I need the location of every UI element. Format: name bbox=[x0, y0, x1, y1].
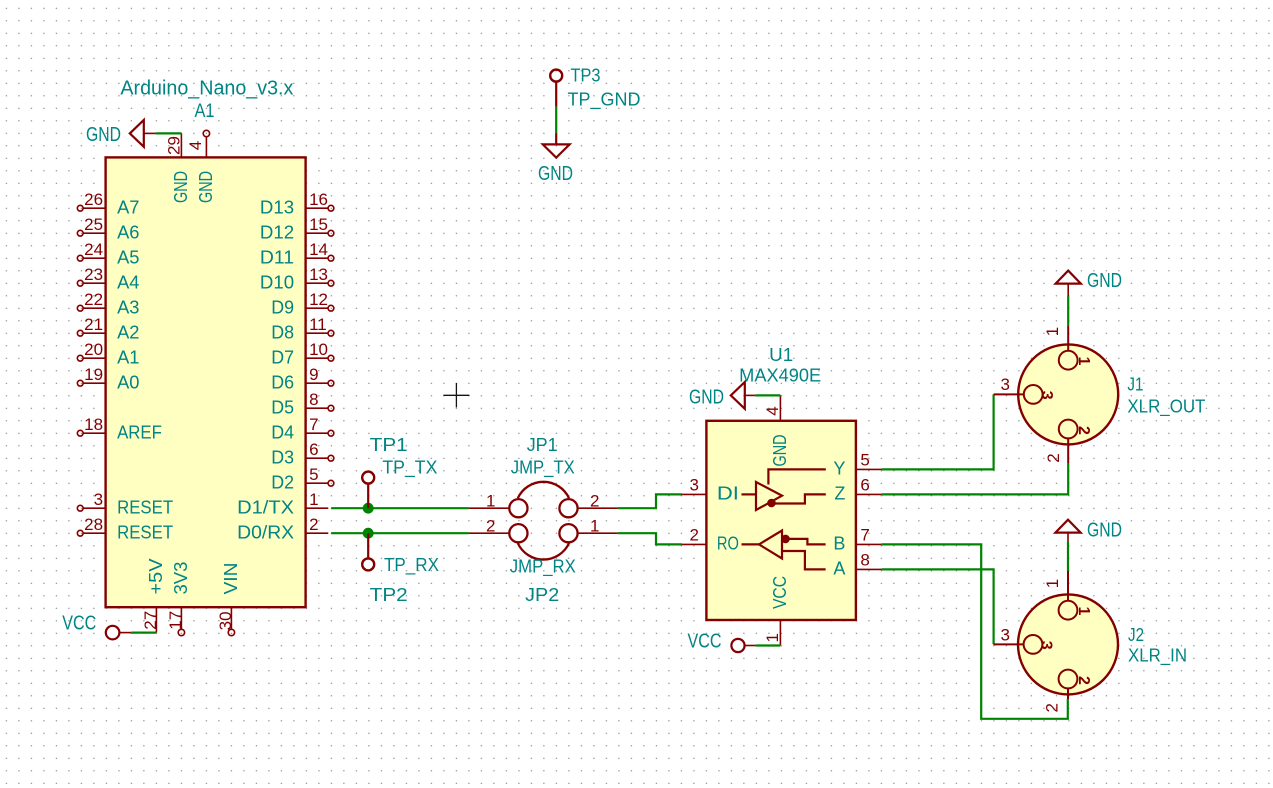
pin 7 (D4) of A1 bbox=[271, 415, 334, 443]
driver triangle (U1 DI to Y/Z) bbox=[756, 482, 782, 510]
svg-text:2: 2 bbox=[486, 516, 495, 535]
wire TP3 to GND bbox=[555, 107, 557, 134]
pin 18 (AREF) of A1 bbox=[77, 415, 162, 443]
svg-text:GND: GND bbox=[538, 163, 573, 185]
svg-text:3: 3 bbox=[690, 476, 699, 495]
jumper JP2 JMP_RX arc bbox=[518, 543, 569, 559]
svg-text:D4: D4 bbox=[271, 422, 294, 442]
pin 2 of J2 bbox=[1043, 670, 1092, 713]
svg-text:B: B bbox=[833, 534, 845, 554]
svg-text:2: 2 bbox=[1044, 453, 1063, 462]
svg-text:D3: D3 bbox=[271, 447, 294, 467]
jumper JP1 JMP_TX arc bbox=[518, 482, 569, 498]
svg-text:TP_RX: TP_RX bbox=[384, 555, 439, 576]
svg-text:2: 2 bbox=[1075, 426, 1092, 435]
svg-text:TP3: TP3 bbox=[571, 66, 601, 86]
jumper JP2 pad 1 bbox=[559, 516, 617, 542]
svg-text:+5V: +5V bbox=[146, 559, 166, 595]
svg-text:TP_TX: TP_TX bbox=[382, 458, 437, 479]
svg-text:1: 1 bbox=[1043, 579, 1062, 588]
svg-text:A: A bbox=[833, 559, 845, 579]
svg-text:7: 7 bbox=[309, 415, 318, 434]
svg-text:D6: D6 bbox=[271, 372, 294, 392]
svg-text:D5: D5 bbox=[271, 397, 294, 417]
svg-text:D0/RX: D0/RX bbox=[237, 522, 294, 542]
svg-text:TP2: TP2 bbox=[370, 585, 408, 605]
svg-text:16: 16 bbox=[309, 190, 328, 209]
pin 11 (D8) of A1 bbox=[271, 315, 334, 343]
svg-text:GND: GND bbox=[171, 171, 191, 203]
svg-text:A4: A4 bbox=[117, 272, 139, 292]
svg-text:27: 27 bbox=[141, 611, 160, 630]
svg-text:MAX490E: MAX490E bbox=[739, 366, 821, 386]
svg-text:A0: A0 bbox=[117, 372, 139, 392]
pin 8 (D5) of A1 bbox=[271, 390, 334, 418]
internal wire Z output bbox=[775, 494, 826, 503]
svg-text:30: 30 bbox=[216, 611, 235, 630]
pin 16 (D13) of A1 bbox=[260, 190, 334, 218]
pin 2 (RO) of U1 bbox=[682, 526, 739, 554]
testpoint TP3 TP_GND bbox=[550, 70, 562, 107]
svg-text:J2: J2 bbox=[1128, 625, 1144, 645]
pin 20 (A1) of A1 bbox=[77, 340, 139, 368]
svg-text:3: 3 bbox=[1001, 625, 1010, 644]
svg-text:XLR_OUT: XLR_OUT bbox=[1127, 397, 1205, 418]
pin 23 (A4) of A1 bbox=[77, 265, 139, 293]
svg-text:GND: GND bbox=[1087, 520, 1122, 542]
svg-text:GND: GND bbox=[86, 124, 121, 146]
svg-text:D13: D13 bbox=[260, 197, 294, 217]
svg-text:GND: GND bbox=[196, 171, 216, 203]
pin 1 of J1 bbox=[1043, 326, 1092, 370]
pin 14 (D11) of A1 bbox=[260, 240, 334, 268]
junction on D0/RX at TP2 bbox=[363, 528, 374, 539]
svg-text:17: 17 bbox=[166, 611, 185, 630]
pin 28 (RESET) of A1 bbox=[77, 515, 173, 543]
internal wire Y output bbox=[768, 469, 825, 484]
jumper JP1 pad 2 bbox=[559, 491, 617, 517]
power symbol GND at A1 pin 29 bbox=[86, 120, 155, 147]
svg-text:D1/TX: D1/TX bbox=[237, 497, 294, 517]
svg-text:1: 1 bbox=[1075, 607, 1092, 616]
svg-text:18: 18 bbox=[84, 415, 103, 434]
svg-text:24: 24 bbox=[84, 240, 103, 259]
pin 26 (A7) of A1 bbox=[77, 190, 139, 218]
svg-text:JMP_TX: JMP_TX bbox=[511, 458, 575, 479]
svg-text:TP_GND: TP_GND bbox=[568, 90, 641, 111]
wire GND to J2 pin 1 bbox=[1067, 542, 1069, 571]
svg-text:1: 1 bbox=[486, 491, 495, 510]
junction on D1/TX at TP1 bbox=[363, 503, 374, 514]
wire GND to J1 pin 1 bbox=[1067, 296, 1069, 326]
internal wire RO output bbox=[742, 543, 760, 545]
wire JP1 pin 2 to U1 pin 3 (DI) bbox=[618, 494, 682, 508]
wire U1 pin 7 (B) to J2 pin 2 bbox=[881, 544, 1067, 718]
svg-text:A3: A3 bbox=[117, 297, 139, 317]
svg-text:14: 14 bbox=[309, 240, 328, 259]
power symbol GND above J2 bbox=[1055, 520, 1122, 543]
svg-text:J1: J1 bbox=[1127, 375, 1143, 395]
svg-text:D12: D12 bbox=[260, 222, 294, 242]
pin 19 (A0) of A1 bbox=[77, 365, 139, 393]
wire GND flag to U1 pin 4 bbox=[755, 394, 780, 396]
svg-text:1: 1 bbox=[763, 633, 782, 642]
pin 9 (D6) of A1 bbox=[271, 365, 334, 393]
svg-text:12: 12 bbox=[309, 290, 328, 309]
connector J1 XLR_OUT body bbox=[1018, 344, 1118, 444]
svg-text:A1: A1 bbox=[117, 347, 139, 367]
svg-text:6: 6 bbox=[309, 440, 318, 459]
svg-text:4: 4 bbox=[763, 406, 782, 415]
svg-text:3V3: 3V3 bbox=[171, 562, 191, 595]
svg-text:21: 21 bbox=[84, 315, 103, 334]
svg-text:2: 2 bbox=[690, 526, 699, 545]
svg-text:13: 13 bbox=[309, 265, 328, 284]
pin 2 (D0/RX) of A1 bbox=[237, 515, 328, 543]
pin 8 (A) of U1 bbox=[833, 551, 881, 579]
pin 5 (Y) of U1 bbox=[833, 451, 881, 479]
svg-text:GND: GND bbox=[1087, 270, 1122, 292]
pin 21 (A2) of A1 bbox=[77, 315, 139, 343]
svg-text:10: 10 bbox=[309, 340, 328, 359]
power symbol GND at U1 pin 4 bbox=[689, 382, 755, 409]
svg-text:RESET: RESET bbox=[117, 522, 173, 542]
wire net D1/TX from A1 pin 1 to JP1 pin 1 bbox=[331, 507, 469, 509]
svg-text:23: 23 bbox=[84, 265, 103, 284]
pin 25 (A6) of A1 bbox=[77, 215, 139, 243]
svg-text:D11: D11 bbox=[260, 247, 294, 267]
svg-text:JP1: JP1 bbox=[527, 435, 558, 455]
pin 29 (GND) of A1 bbox=[164, 133, 191, 203]
component A1 Arduino_Nano_v3.x body bbox=[106, 157, 306, 607]
svg-text:JMP_RX: JMP_RX bbox=[510, 557, 576, 578]
svg-text:A5: A5 bbox=[117, 247, 139, 267]
svg-text:Y: Y bbox=[833, 459, 845, 479]
svg-text:VCC: VCC bbox=[770, 576, 790, 609]
svg-text:3: 3 bbox=[94, 490, 103, 509]
svg-text:D10: D10 bbox=[260, 272, 294, 292]
svg-text:AREF: AREF bbox=[117, 422, 162, 442]
power symbol VCC at U1 pin 1 bbox=[688, 630, 756, 652]
svg-text:8: 8 bbox=[860, 551, 869, 570]
svg-text:2: 2 bbox=[590, 491, 599, 510]
svg-text:9: 9 bbox=[309, 365, 318, 384]
svg-text:20: 20 bbox=[84, 340, 103, 359]
svg-text:VCC: VCC bbox=[62, 613, 96, 635]
pin 3 of J1 bbox=[994, 375, 1055, 404]
pin 1 (D1/TX) of A1 bbox=[237, 490, 328, 518]
svg-text:6: 6 bbox=[860, 476, 869, 495]
pin 1 (VCC) of U1 bbox=[763, 576, 790, 645]
pin 4 (GND) of U1 bbox=[763, 395, 790, 466]
pin 12 (D9) of A1 bbox=[271, 290, 334, 318]
receiver triangle (U1 A/B to RO) bbox=[759, 531, 782, 559]
svg-text:2: 2 bbox=[1075, 676, 1092, 685]
wire JP2 pin 1 to U1 pin 2 (RO) bbox=[618, 533, 682, 544]
pin 4 (GND) of A1 bbox=[186, 130, 216, 203]
svg-text:3: 3 bbox=[1038, 641, 1055, 650]
svg-text:1: 1 bbox=[590, 516, 599, 535]
pin 3 of J2 bbox=[994, 625, 1055, 653]
internal wire DI input bbox=[742, 493, 757, 495]
inversion bubble receiver B bbox=[782, 535, 789, 542]
svg-text:25: 25 bbox=[84, 215, 103, 234]
testpoint TP1 TP_TX bbox=[362, 472, 374, 509]
pin 10 (D7) of A1 bbox=[271, 340, 334, 368]
svg-text:GND: GND bbox=[689, 387, 724, 409]
svg-text:A1: A1 bbox=[195, 101, 215, 122]
svg-text:RO: RO bbox=[717, 534, 739, 554]
svg-text:VCC: VCC bbox=[688, 630, 722, 652]
svg-text:Z: Z bbox=[834, 484, 845, 504]
internal wire A input bbox=[782, 551, 826, 569]
svg-text:8: 8 bbox=[309, 390, 318, 409]
svg-text:JP2: JP2 bbox=[525, 585, 559, 605]
svg-text:28: 28 bbox=[84, 515, 103, 534]
pin 27 (+5V) of A1 bbox=[141, 559, 166, 633]
svg-text:2: 2 bbox=[309, 515, 318, 534]
pin 13 (D10) of A1 bbox=[260, 265, 334, 293]
pin 3 (RESET) of A1 bbox=[77, 490, 173, 518]
svg-text:D7: D7 bbox=[271, 347, 294, 367]
svg-text:D8: D8 bbox=[271, 322, 294, 342]
pin 3 (DI) of U1 bbox=[682, 476, 739, 504]
testpoint TP2 TP_RX bbox=[362, 533, 374, 570]
wire U1 pin 6 (Z) to J1 pin 2 bbox=[881, 464, 1068, 495]
svg-text:11: 11 bbox=[309, 315, 327, 334]
jumper JP2 pad 2 bbox=[469, 516, 528, 542]
svg-text:2: 2 bbox=[1043, 703, 1062, 712]
svg-text:29: 29 bbox=[164, 136, 183, 155]
jumper JP1 pad 1 bbox=[469, 491, 528, 517]
component U1 MAX490E body bbox=[706, 421, 856, 620]
pin 6 (D3) of A1 bbox=[271, 440, 334, 468]
pin 5 (D2) of A1 bbox=[271, 465, 334, 493]
svg-text:U1: U1 bbox=[769, 345, 793, 365]
svg-text:15: 15 bbox=[309, 215, 328, 234]
wire VCC to U1 pin 1 bbox=[755, 644, 780, 646]
svg-text:1: 1 bbox=[309, 490, 318, 509]
svg-text:A2: A2 bbox=[117, 322, 139, 342]
svg-text:RESET: RESET bbox=[117, 497, 173, 517]
svg-text:7: 7 bbox=[860, 526, 869, 545]
svg-text:1: 1 bbox=[1043, 327, 1062, 336]
connector J2 XLR_IN body bbox=[1018, 594, 1118, 694]
svg-text:Arduino_Nano_v3.x: Arduino_Nano_v3.x bbox=[120, 78, 293, 100]
pin 17 (3V3) of A1 bbox=[166, 562, 191, 636]
svg-text:A6: A6 bbox=[117, 222, 139, 242]
pin 2 of J1 bbox=[1044, 420, 1092, 464]
svg-text:22: 22 bbox=[84, 290, 103, 309]
cursor crosshair bbox=[443, 383, 469, 407]
pin 7 (B) of U1 bbox=[833, 526, 881, 554]
internal wire B input bbox=[789, 539, 826, 545]
pin 30 (VIN) of A1 bbox=[216, 563, 241, 636]
svg-text:5: 5 bbox=[309, 465, 318, 484]
pin 15 (D12) of A1 bbox=[260, 215, 334, 243]
svg-text:D2: D2 bbox=[271, 472, 294, 492]
pin 24 (A5) of A1 bbox=[77, 240, 139, 268]
pin 22 (A3) of A1 bbox=[77, 290, 139, 318]
svg-text:26: 26 bbox=[84, 190, 103, 209]
pin 6 (Z) of U1 bbox=[834, 476, 881, 504]
svg-text:XLR_IN: XLR_IN bbox=[1128, 646, 1187, 667]
pin 1 of J2 bbox=[1043, 571, 1092, 620]
svg-text:TP1: TP1 bbox=[370, 435, 408, 455]
svg-text:1: 1 bbox=[1075, 357, 1092, 366]
svg-text:19: 19 bbox=[84, 365, 103, 384]
wire U1 pin 5 (Y) to J1 pin 3 bbox=[881, 394, 993, 469]
svg-text:A7: A7 bbox=[117, 197, 139, 217]
wire U1 pin 8 (A) to J2 pin 3 bbox=[881, 569, 993, 644]
power symbol GND below TP3 bbox=[538, 133, 573, 185]
wire VCC to A1 pin 27 bbox=[131, 631, 156, 633]
svg-text:4: 4 bbox=[186, 141, 205, 150]
power symbol VCC at A1 pin 27 bbox=[62, 613, 131, 640]
svg-text:3: 3 bbox=[1001, 375, 1010, 394]
power symbol GND above J1 bbox=[1056, 270, 1122, 296]
svg-text:D9: D9 bbox=[271, 297, 294, 317]
svg-text:VIN: VIN bbox=[221, 563, 241, 595]
svg-text:DI: DI bbox=[717, 484, 739, 504]
svg-text:3: 3 bbox=[1038, 391, 1055, 400]
wire net D0/RX from A1 pin 2 to JP2 pin 2 bbox=[331, 532, 469, 534]
svg-text:GND: GND bbox=[770, 435, 790, 467]
wire GND flag to A1 pin 29 bbox=[155, 132, 181, 134]
inversion bubble driver Z bbox=[768, 499, 775, 506]
svg-text:5: 5 bbox=[860, 451, 869, 470]
